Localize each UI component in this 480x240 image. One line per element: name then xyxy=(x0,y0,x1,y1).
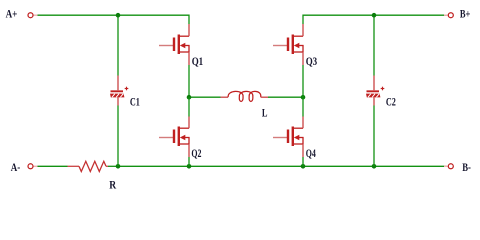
wire resistor R to bottom rail xyxy=(108,165,118,167)
wire top-right rail Q3 drain corner to B+ xyxy=(303,15,447,24)
svg-text:C2: C2 xyxy=(386,94,396,108)
svg-text:B-: B- xyxy=(462,160,471,174)
svg-text:Q3: Q3 xyxy=(306,54,318,68)
junction bottom rail / Q4 xyxy=(301,164,306,169)
junction mid rail left xyxy=(187,95,192,100)
wire Q3 source to mid rail xyxy=(302,65,304,98)
junction bottom rail / C2 xyxy=(372,164,377,169)
wire Q4 source to bottom rail xyxy=(302,157,304,166)
wire Q1 source to mid rail xyxy=(188,65,190,98)
terminal B+ xyxy=(444,13,453,18)
svg-text:C1: C1 xyxy=(130,94,140,108)
inductor L xyxy=(221,91,269,101)
wire A- terminal to resistor R xyxy=(38,165,68,167)
junction bottom rail / C1 xyxy=(116,164,121,169)
junction bottom rail / Q2 xyxy=(187,164,192,169)
wire C2 bottom drop xyxy=(373,106,375,167)
wire mid rail to Q2 drain xyxy=(188,97,190,116)
transistor Q4 (N-MOSFET) xyxy=(273,117,304,158)
wire C1 top drop xyxy=(117,15,119,75)
wire mid rail to Q4 drain xyxy=(302,97,304,116)
wire top-left rail A+ to Q1 drain corner xyxy=(38,15,190,24)
wire bottom rail xyxy=(118,165,447,167)
svg-text:Q1: Q1 xyxy=(192,54,204,68)
terminal B- xyxy=(444,164,453,169)
resistor R xyxy=(68,161,109,171)
svg-text:Q4: Q4 xyxy=(306,146,316,160)
svg-text:B+: B+ xyxy=(460,7,471,21)
terminal A+ xyxy=(28,13,38,18)
svg-text:A-: A- xyxy=(11,160,20,174)
svg-text:L: L xyxy=(262,106,268,120)
junction top rail / C1 xyxy=(116,13,121,18)
capacitor C1 (polarized) xyxy=(110,76,128,106)
wire Q2 source to bottom rail xyxy=(188,157,190,166)
junction top rail / C2 xyxy=(372,13,377,18)
transistor Q1 (N-MOSFET) xyxy=(159,24,190,65)
svg-text:A+: A+ xyxy=(6,7,18,21)
svg-text:R: R xyxy=(109,178,116,192)
junction mid rail right xyxy=(301,95,306,100)
wire mid rail left segment to inductor xyxy=(189,96,221,98)
transistor Q2 (N-MOSFET) xyxy=(159,117,190,158)
terminal A- xyxy=(28,164,38,169)
wire inductor to mid rail right xyxy=(268,96,303,98)
wire C2 top drop xyxy=(373,15,375,75)
capacitor C2 (polarized) xyxy=(366,76,384,106)
svg-text:Q2: Q2 xyxy=(191,146,201,160)
transistor Q3 (N-MOSFET) xyxy=(273,24,304,65)
wire C1 bottom drop xyxy=(117,106,119,167)
